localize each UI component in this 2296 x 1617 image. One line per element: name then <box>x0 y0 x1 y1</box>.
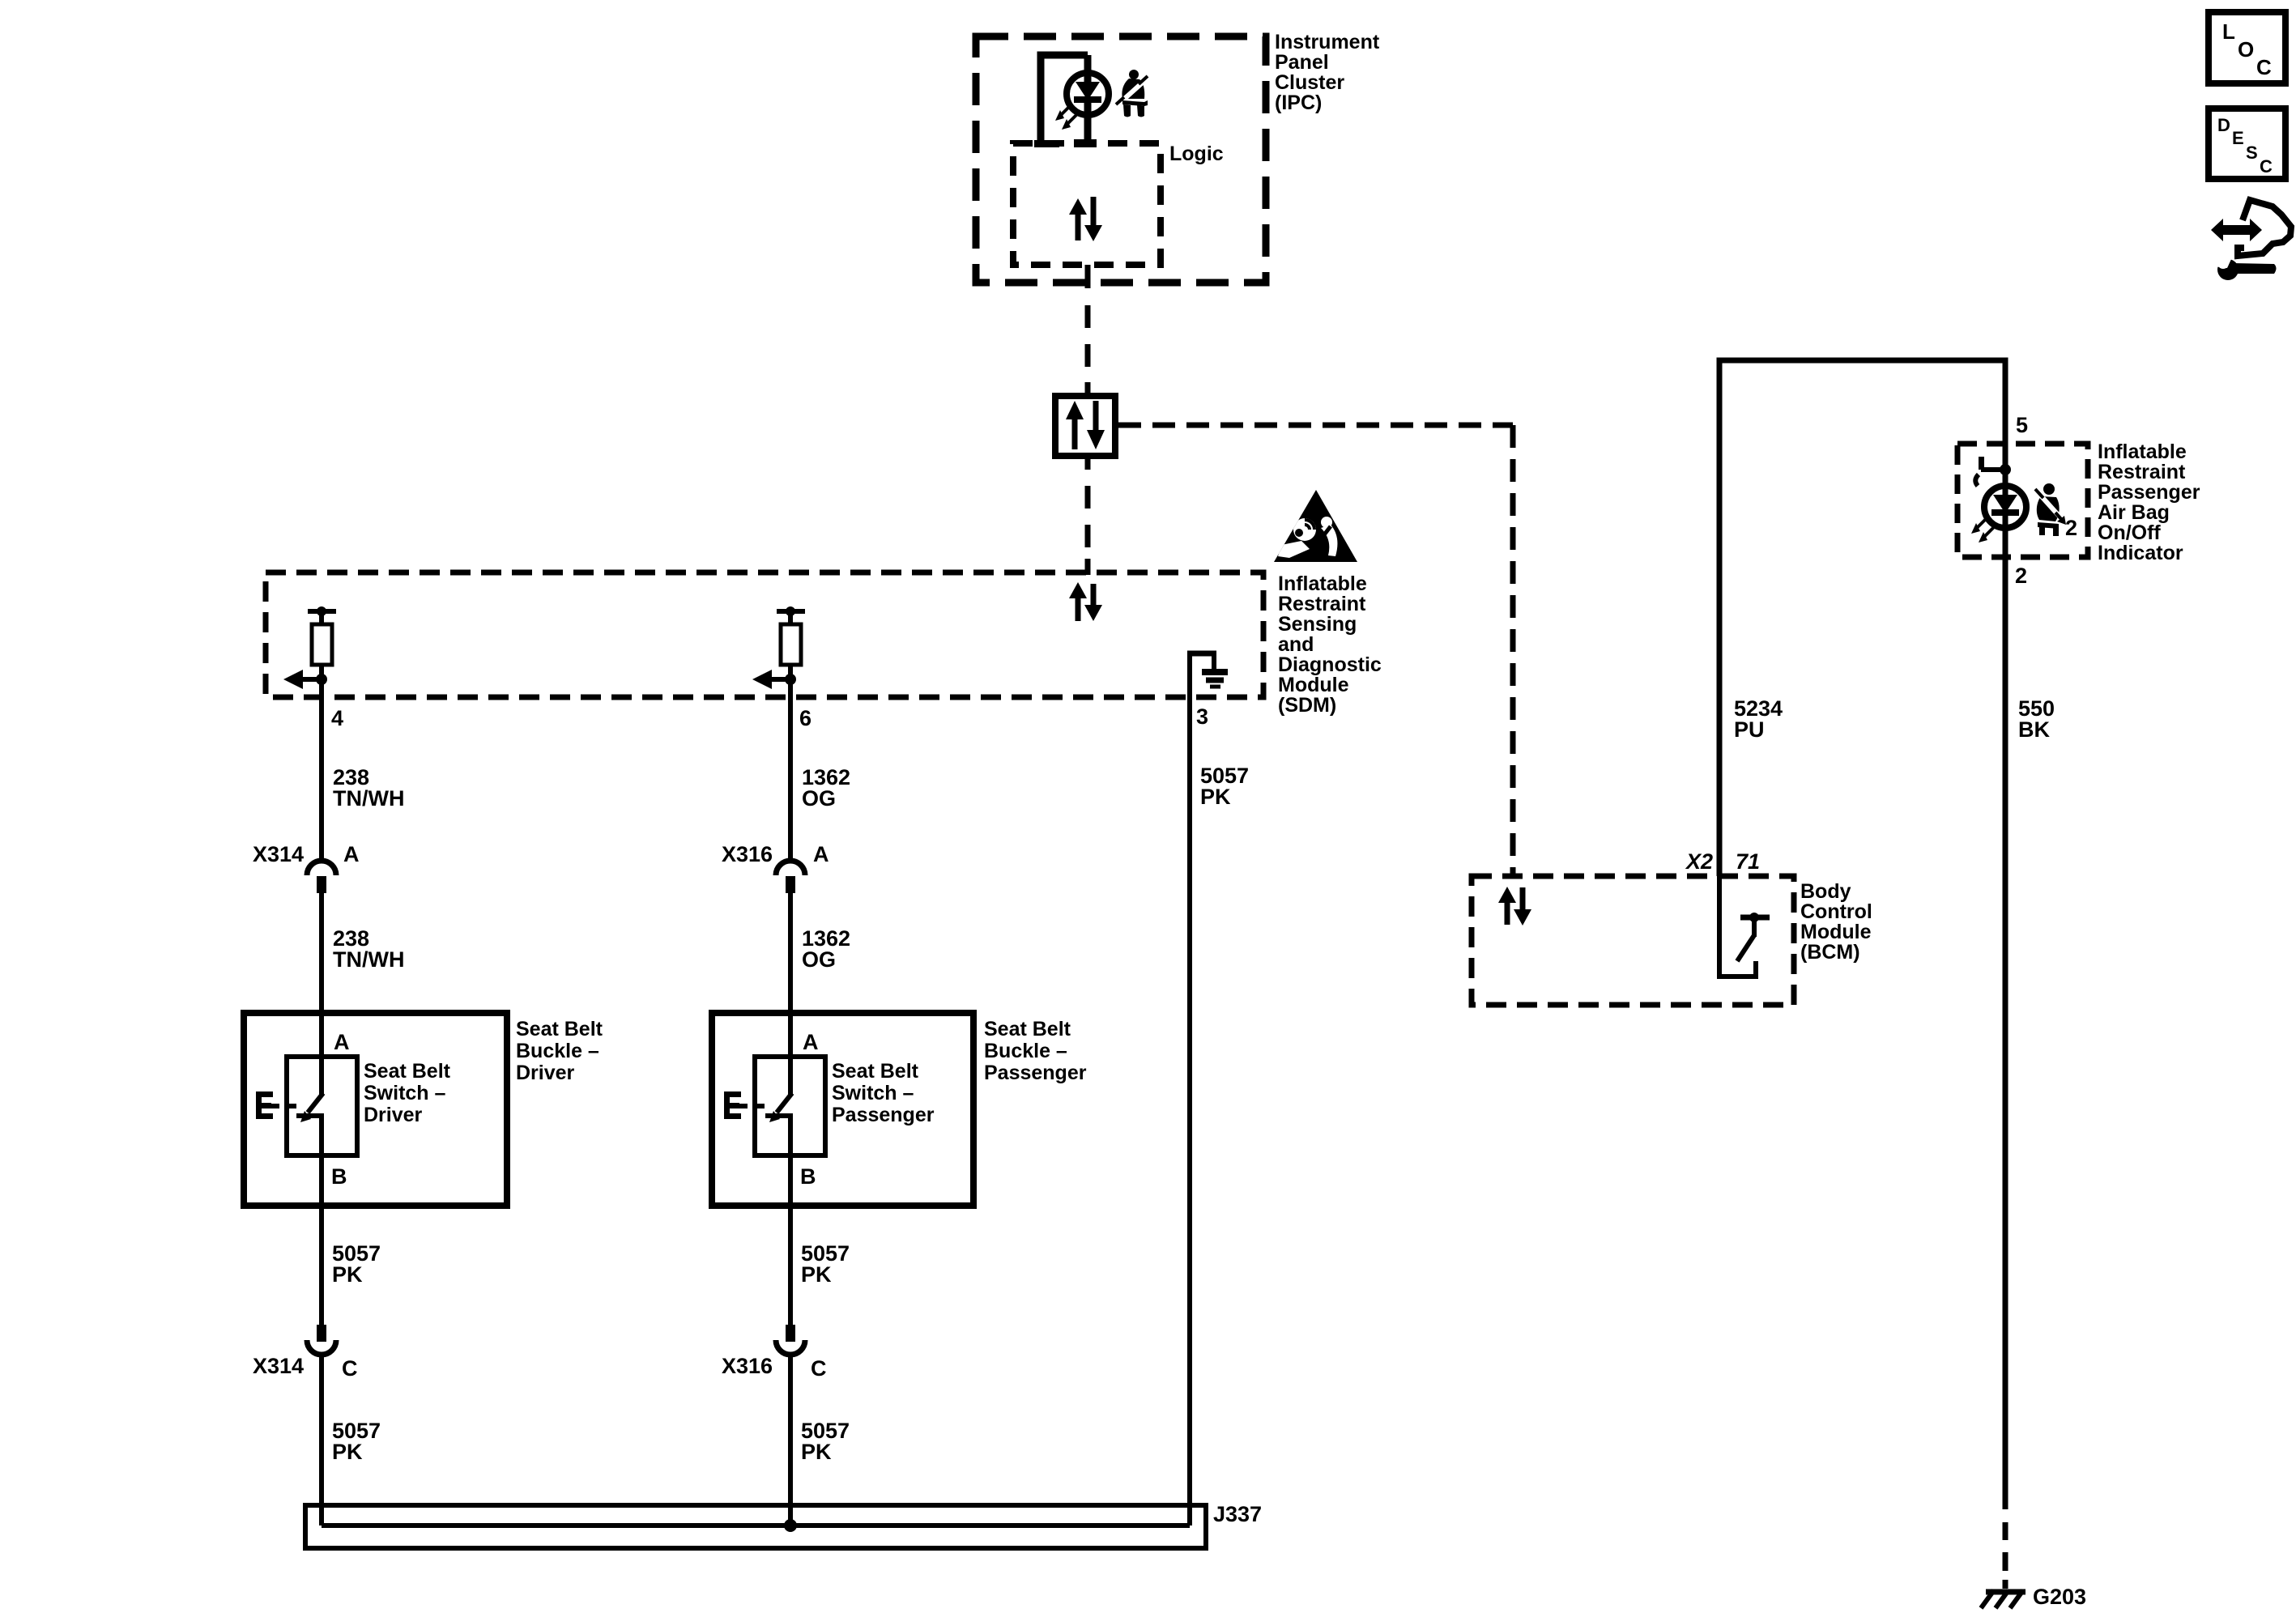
svg-text:Passenger: Passenger <box>984 1062 1087 1084</box>
svg-text:Buckle –: Buckle – <box>984 1040 1067 1062</box>
svg-text:PK: PK <box>332 1262 363 1287</box>
wire driver switch B to X314 C (5057 PK) <box>319 1155 324 1325</box>
svg-text:Panel: Panel <box>1275 51 1329 74</box>
BCM output driver switch symbol <box>1717 876 1770 979</box>
svg-text:PK: PK <box>801 1262 832 1287</box>
lamp housing rectangle in IPC <box>1034 55 1097 147</box>
svg-text:Inflatable: Inflatable <box>2098 440 2187 463</box>
full size vehicle navigation icon (car, arrow, wrench) <box>2211 200 2291 280</box>
wire 238 TN/WH lower (X314 to switch) <box>319 893 324 1013</box>
svg-text:71: 71 <box>1736 849 1760 874</box>
svg-text:Sensing: Sensing <box>1278 613 1357 636</box>
Seat Belt Buckle - Passenger box <box>712 1013 973 1206</box>
svg-text:S: S <box>2246 143 2258 163</box>
svg-text:Passenger: Passenger <box>832 1104 935 1126</box>
svg-text:X2: X2 <box>1685 849 1713 874</box>
seat belt icon (IPC) <box>1116 70 1148 117</box>
svg-text:Seat Belt: Seat Belt <box>984 1018 1071 1040</box>
svg-text:2: 2 <box>2015 564 2027 588</box>
dashed serial data wire to BCM (horizontal) <box>1118 423 1513 428</box>
SRS warning triangle <box>1274 490 1357 562</box>
svg-text:X316: X316 <box>722 1354 773 1378</box>
Logic dashed box <box>1013 143 1161 265</box>
svg-text:Restraint: Restraint <box>2098 461 2186 483</box>
svg-text:Switch –: Switch – <box>364 1082 446 1104</box>
svg-text:J337: J337 <box>1213 1502 1262 1526</box>
LED light rays (indicator) <box>1971 518 1994 543</box>
svg-text:2: 2 <box>2065 516 2077 540</box>
svg-text:C: C <box>2256 55 2272 79</box>
svg-text:TN/WH: TN/WH <box>333 786 404 811</box>
svg-text:D: D <box>2217 115 2230 135</box>
wire from Logic box down (dashed serial data) <box>1085 265 1091 396</box>
driver switch fixed contact <box>296 1116 324 1155</box>
svg-text:E: E <box>2232 128 2244 148</box>
svg-text:Driver: Driver <box>364 1104 423 1126</box>
svg-text:BK: BK <box>2018 717 2050 742</box>
svg-text:G203: G203 <box>2033 1585 2086 1609</box>
wire through IPC indicator LED <box>1084 55 1092 143</box>
svg-text:B: B <box>800 1164 816 1189</box>
svg-text:Diagnostic: Diagnostic <box>1278 653 1382 676</box>
svg-text:Switch –: Switch – <box>832 1082 914 1104</box>
svg-text:Buckle –: Buckle – <box>516 1040 599 1062</box>
svg-text:3: 3 <box>1196 704 1208 729</box>
wire X314 C to J337 (5057 PK) <box>319 1355 324 1526</box>
svg-text:X314: X314 <box>253 1354 304 1378</box>
svg-text:PK: PK <box>801 1440 832 1464</box>
wire into driver switch <box>319 1013 324 1095</box>
svg-text:X316: X316 <box>722 842 773 866</box>
serial data arrows inside SDM <box>1069 582 1102 621</box>
BCM dashed box <box>1472 876 1794 1005</box>
svg-text:Cluster: Cluster <box>1275 71 1344 94</box>
svg-text:5: 5 <box>2016 413 2028 437</box>
svg-text:Inflatable: Inflatable <box>1278 572 1367 595</box>
seat belt icon with 2 (indicator) <box>2035 483 2066 536</box>
wire into passenger switch <box>788 1013 793 1095</box>
LOC navigation box <box>2209 12 2285 83</box>
svg-text:Restraint: Restraint <box>1278 593 1366 615</box>
svg-text:A: A <box>343 842 360 866</box>
resistor R-driver in SDM <box>308 606 336 684</box>
Seat Belt Switch - Driver inner box <box>287 1057 357 1155</box>
serial data arrows inside Logic box <box>1069 197 1102 241</box>
svg-text:PU: PU <box>1734 717 1765 742</box>
E terminal (driver switch) <box>256 1091 303 1119</box>
svg-text:and: and <box>1278 633 1314 656</box>
svg-text:Logic: Logic <box>1169 143 1224 165</box>
dashed wire to ground G203 <box>2003 1522 2008 1589</box>
svg-text:Module: Module <box>1800 921 1872 943</box>
wire SDM pin 3 to J337 (5057 PK) <box>1187 653 1192 1526</box>
svg-text:Indicator: Indicator <box>2098 542 2183 564</box>
ground G203 symbol <box>1981 1590 2026 1608</box>
E terminal (passenger switch) <box>724 1091 771 1119</box>
svg-text:C: C <box>342 1356 358 1381</box>
svg-text:PK: PK <box>1200 785 1231 809</box>
junction dot on J337 bus <box>784 1519 797 1532</box>
LED lamp U-IPC (seat belt indicator) <box>1067 55 1109 143</box>
svg-text:(IPC): (IPC) <box>1275 91 1322 114</box>
svg-text:Air Bag: Air Bag <box>2098 501 2170 524</box>
svg-text:OG: OG <box>802 947 836 972</box>
DESC navigation box <box>2209 109 2285 179</box>
svg-text:Seat Belt: Seat Belt <box>364 1060 451 1083</box>
svg-text:A: A <box>334 1030 350 1054</box>
serial data arrows inside BCM <box>1498 887 1531 926</box>
passenger switch fixed contact <box>765 1116 793 1155</box>
wire below serial data box (dashed) <box>1085 456 1091 575</box>
svg-text:On/Off: On/Off <box>2098 521 2161 544</box>
svg-text:PK: PK <box>332 1440 363 1464</box>
dashed serial data wire to BCM (vertical) <box>1510 425 1516 876</box>
svg-text:B: B <box>331 1164 347 1189</box>
svg-text:6: 6 <box>799 706 811 730</box>
LED light rays (IPC) <box>1055 105 1077 130</box>
Seat Belt Switch - Passenger inner box <box>755 1057 825 1155</box>
svg-text:(SDM): (SDM) <box>1278 694 1336 717</box>
connector X314 pin C <box>307 1325 336 1355</box>
splice pack J337 <box>305 1505 1206 1548</box>
junction dot at indicator feed <box>2000 464 2011 475</box>
connector X316 pin C <box>776 1325 805 1355</box>
svg-text:Instrument: Instrument <box>1275 31 1380 53</box>
lamp feed key symbol <box>1975 457 2002 486</box>
connector X316 pin A <box>776 861 805 893</box>
wire 1362 OG lower (X316 to switch) <box>788 893 793 1013</box>
Seat Belt Buckle - Driver box <box>244 1013 507 1206</box>
resistor R-passenger in SDM <box>777 606 805 684</box>
svg-text:Driver: Driver <box>516 1062 575 1084</box>
signal arrow at driver resistor node <box>283 670 327 689</box>
LED lamp (passenger air bag indicator) <box>1984 486 2026 557</box>
svg-text:L: L <box>2222 19 2235 44</box>
svg-text:A: A <box>803 1030 819 1054</box>
signal arrow at passenger resistor node <box>752 670 796 689</box>
svg-text:Seat Belt: Seat Belt <box>832 1060 919 1083</box>
svg-text:O: O <box>2238 37 2254 62</box>
wire 5234 PU (BCM pin 71 up and over to indicator pin 5) <box>1719 360 2005 876</box>
svg-text:(BCM): (BCM) <box>1800 941 1860 964</box>
svg-text:C: C <box>811 1356 827 1381</box>
passenger switch blade <box>769 1093 792 1122</box>
driver switch blade <box>300 1093 323 1122</box>
svg-text:X314: X314 <box>253 842 304 866</box>
wire 1362 OG upper (SDM pin 6 to X316) <box>788 679 793 862</box>
serial data symbol box <box>1055 396 1115 456</box>
svg-text:Seat Belt: Seat Belt <box>516 1018 603 1040</box>
svg-text:OG: OG <box>802 786 836 811</box>
wire 238 TN/WH upper (SDM pin 4 to X314) <box>319 679 324 862</box>
svg-text:Body: Body <box>1800 880 1851 903</box>
svg-text:TN/WH: TN/WH <box>333 947 404 972</box>
svg-text:Passenger: Passenger <box>2098 481 2200 504</box>
svg-text:C: C <box>2260 156 2273 177</box>
svg-text:4: 4 <box>331 706 343 730</box>
wire 550 BK (indicator pin 2 down) <box>2003 557 2008 1509</box>
SDM dashed box <box>266 572 1263 697</box>
svg-text:Module: Module <box>1278 674 1349 696</box>
wire X316 C to J337 (5057 PK) <box>788 1355 793 1526</box>
wire through indicator box <box>2003 444 2008 486</box>
IPC dashed box <box>976 36 1266 283</box>
svg-text:A: A <box>813 842 829 866</box>
wire passenger switch B to X316 C (5057 PK) <box>788 1155 793 1325</box>
svg-text:Control: Control <box>1800 900 1872 923</box>
Inflatable Restraint Passenger Air Bag On/Off Indicator dashed box <box>1957 444 2088 557</box>
connector X314 pin A <box>307 861 336 893</box>
ground symbol inside SDM (pin 3) <box>1187 653 1228 687</box>
